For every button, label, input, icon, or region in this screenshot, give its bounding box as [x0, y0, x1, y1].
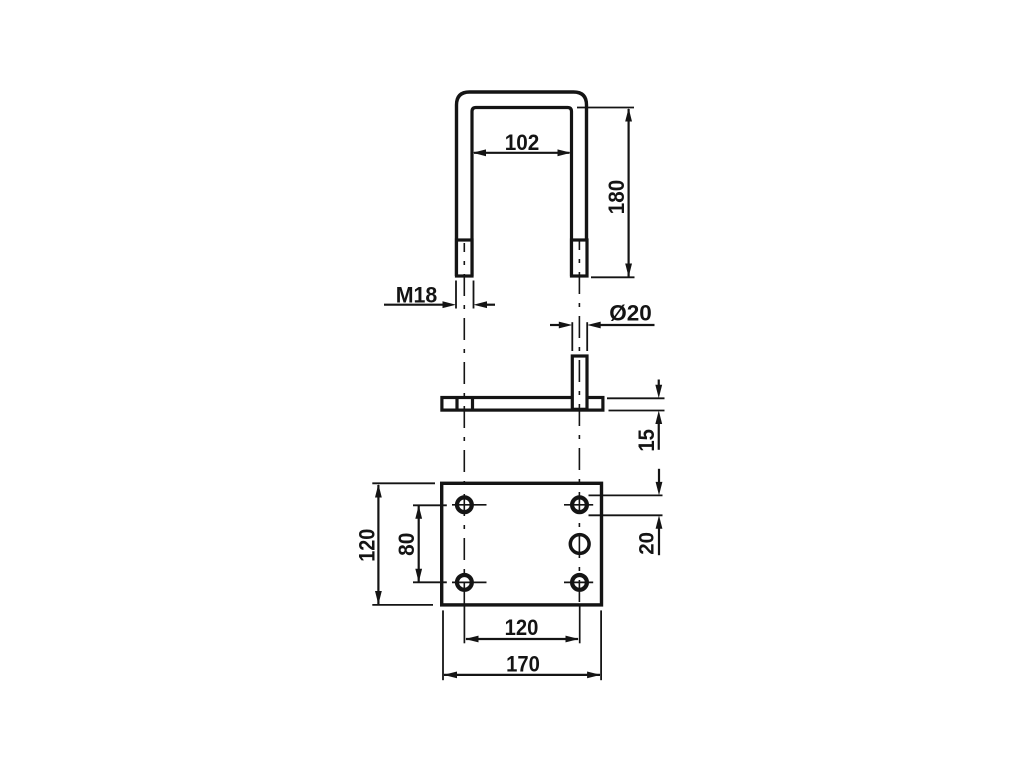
- svg-text:120: 120: [505, 616, 539, 640]
- svg-text:M18: M18: [396, 282, 438, 308]
- svg-text:102: 102: [505, 129, 540, 155]
- svg-text:170: 170: [506, 653, 540, 677]
- svg-text:Ø20: Ø20: [609, 301, 652, 326]
- svg-text:80: 80: [394, 533, 419, 556]
- svg-text:180: 180: [603, 180, 629, 215]
- svg-text:20: 20: [635, 532, 659, 555]
- svg-text:120: 120: [355, 529, 379, 562]
- svg-text:15: 15: [635, 429, 659, 452]
